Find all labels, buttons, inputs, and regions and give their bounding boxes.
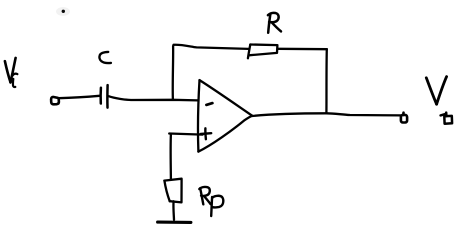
label Vo [426, 77, 452, 124]
op-amp plus marking [201, 128, 212, 139]
top feedback wire (right segment) [278, 48, 327, 51]
label R [268, 13, 281, 33]
feedback tap vertical wire [172, 46, 175, 100]
wire capacitor to op-amp inverting input [109, 96, 198, 100]
wire Rp to ground [172, 201, 175, 220]
output terminal [401, 113, 407, 123]
label Vi [5, 58, 18, 87]
resistor R [248, 45, 278, 59]
label C [99, 52, 110, 63]
feedback right vertical wire [325, 49, 328, 113]
noninverting input wire [169, 134, 202, 135]
stray dot [56, 7, 70, 16]
wire input to capacitor [59, 96, 100, 98]
ground [158, 221, 191, 224]
resistor Rp [164, 179, 181, 203]
output wire [252, 113, 401, 116]
capacitor C1 [101, 85, 108, 108]
label Rp [199, 187, 223, 216]
op-amp minus marking [206, 103, 212, 105]
op-amp U1 [198, 80, 252, 152]
top feedback wire (left segment) [174, 45, 249, 49]
input terminal [51, 97, 59, 104]
wire down to Rp [169, 134, 172, 180]
